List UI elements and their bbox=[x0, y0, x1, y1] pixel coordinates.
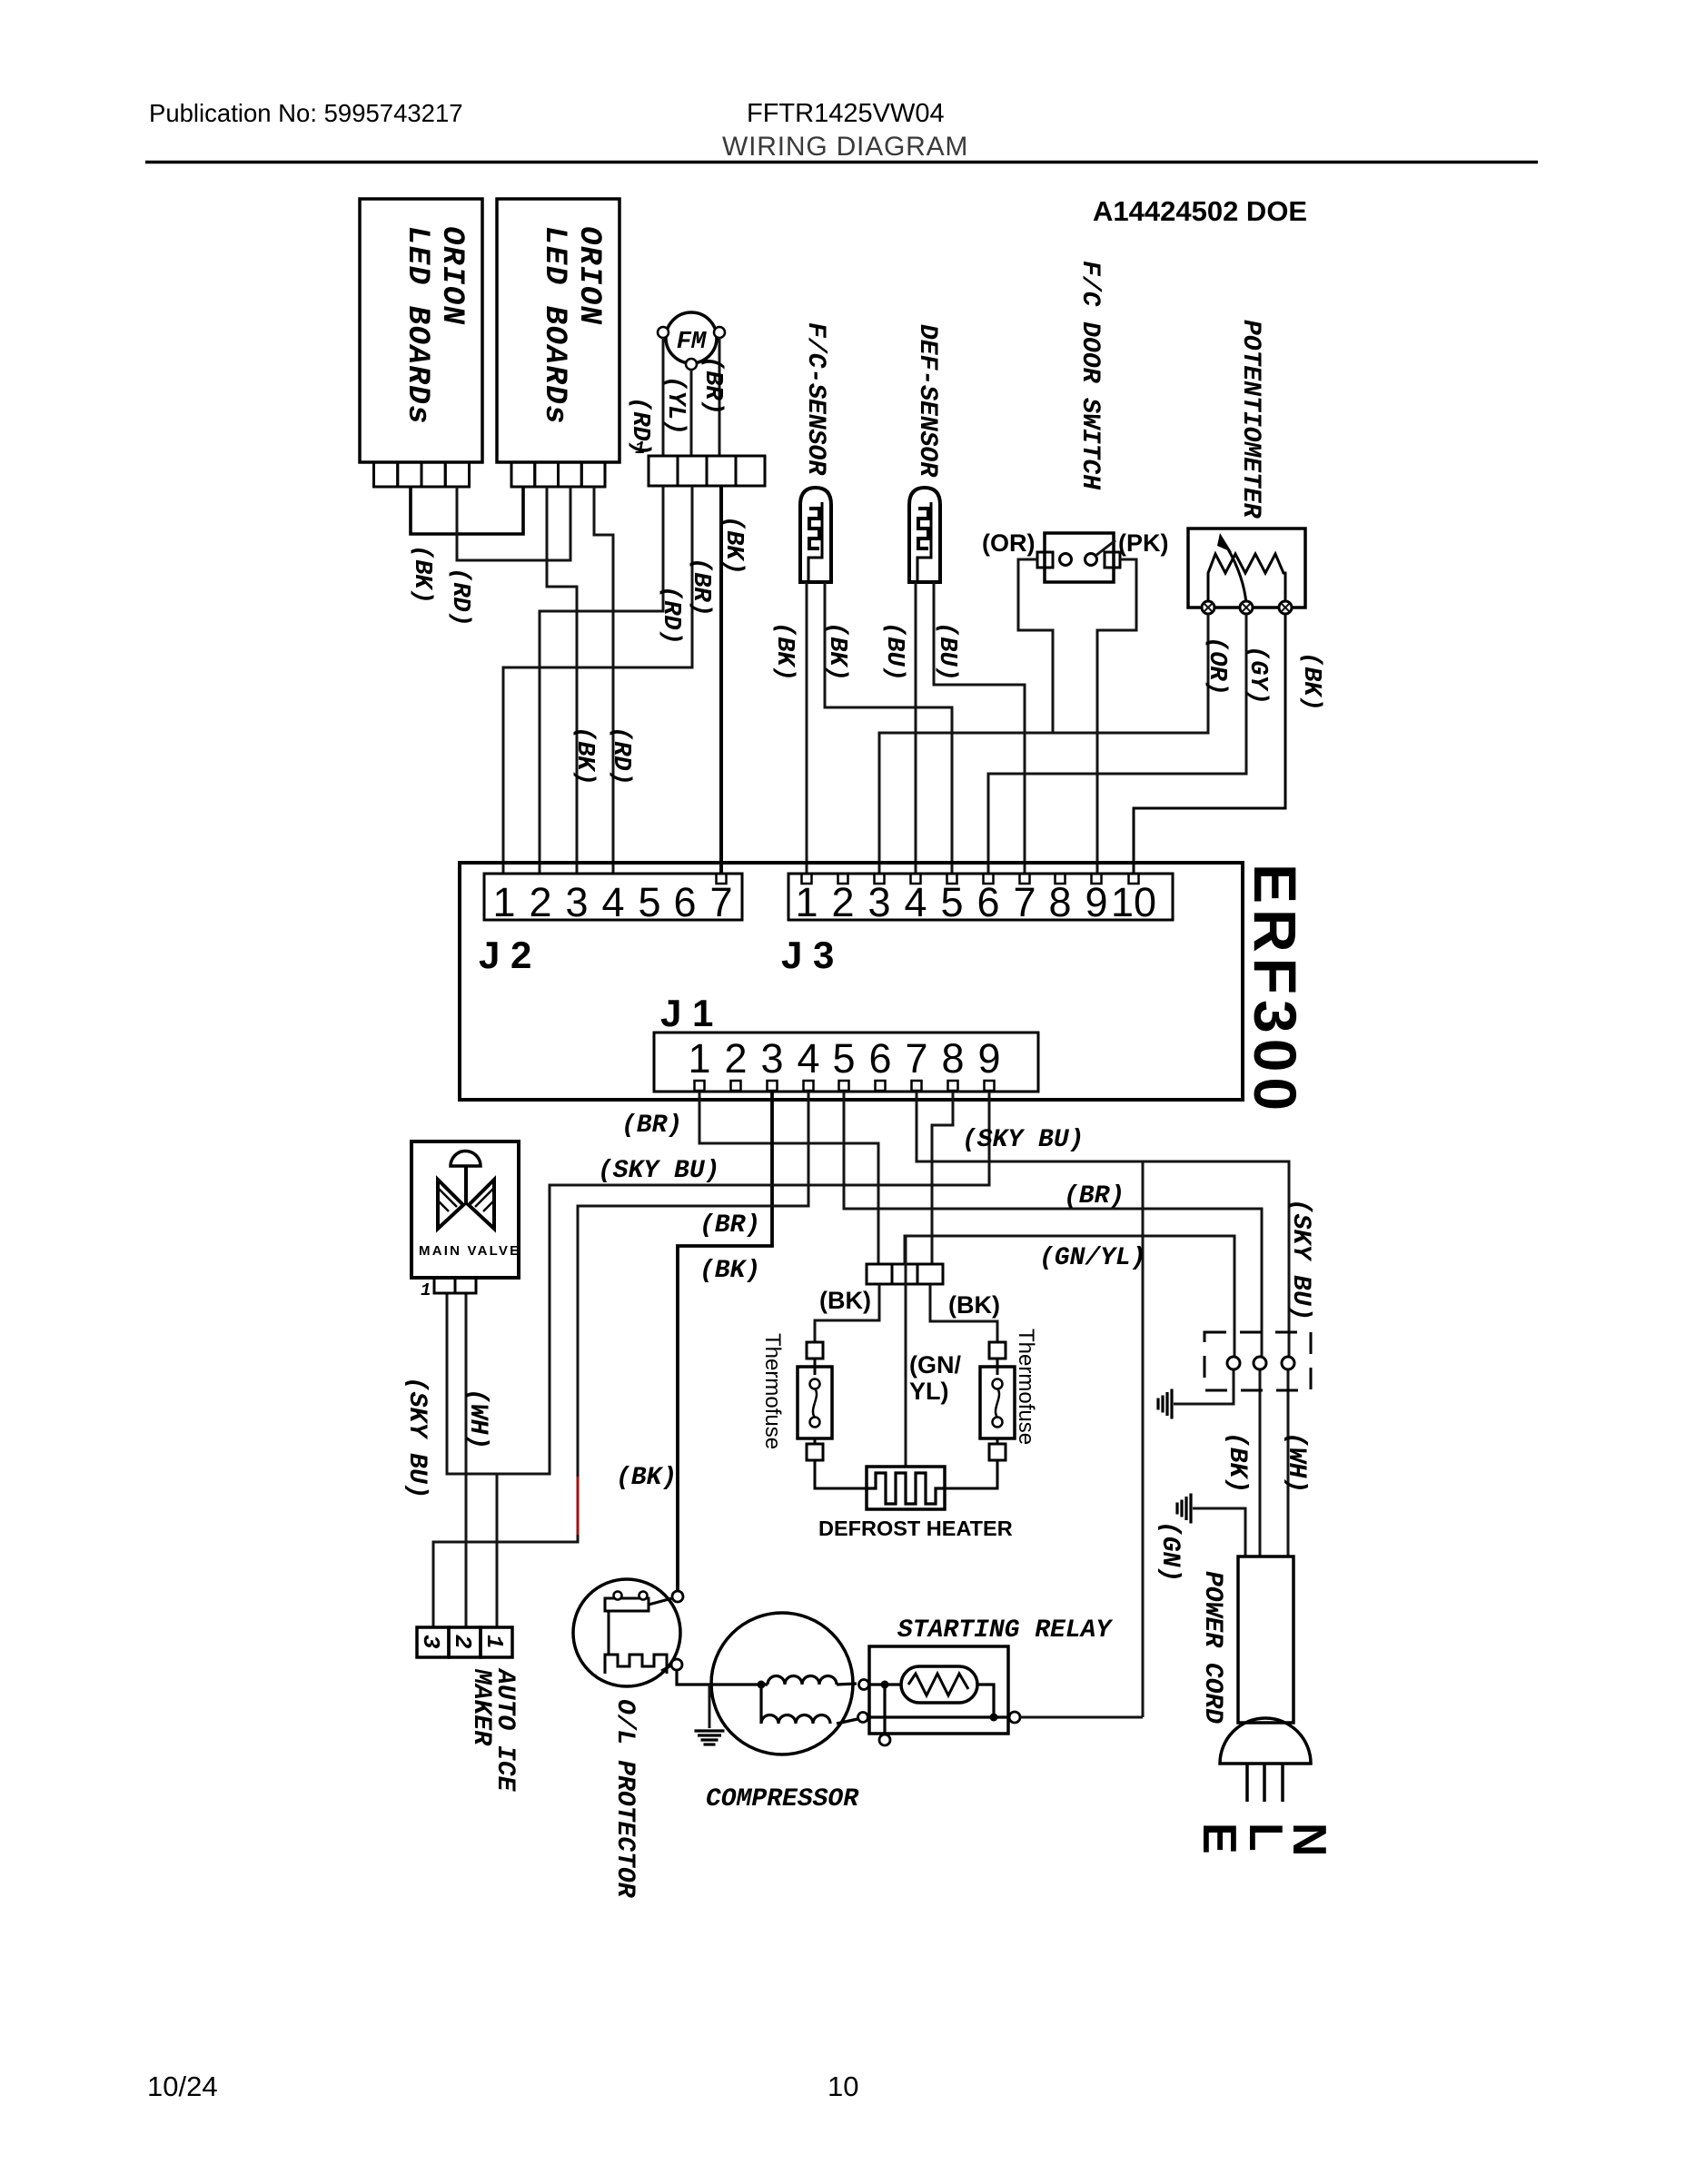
svg-text:L: L bbox=[1239, 1823, 1292, 1852]
svg-text:(OR): (OR) bbox=[1203, 637, 1230, 696]
svg-text:(RD): (RD) bbox=[657, 586, 684, 645]
svg-text:(BR): (BR) bbox=[699, 1211, 760, 1240]
svg-text:10: 10 bbox=[828, 2070, 858, 2102]
svg-text:Publication No: 5995743217: Publication No: 5995743217 bbox=[149, 99, 463, 127]
svg-text:(BU): (BU) bbox=[880, 622, 907, 681]
svg-text:2: 2 bbox=[724, 1035, 747, 1082]
svg-text:(BK): (BK) bbox=[823, 622, 850, 681]
svg-text:10: 10 bbox=[1111, 879, 1156, 925]
svg-text:2: 2 bbox=[529, 879, 551, 925]
svg-text:2: 2 bbox=[449, 1635, 476, 1649]
svg-text:(RD): (RD) bbox=[607, 726, 634, 786]
svg-text:(GN): (GN) bbox=[1155, 1521, 1184, 1582]
svg-text:(PK): (PK) bbox=[1118, 529, 1169, 557]
svg-text:8: 8 bbox=[941, 1035, 964, 1082]
svg-text:Thermofuse: Thermofuse bbox=[760, 1333, 785, 1449]
svg-text:(YL): (YL) bbox=[661, 376, 689, 435]
svg-text:3: 3 bbox=[417, 1635, 444, 1649]
svg-text:(BU): (BU) bbox=[933, 622, 960, 681]
svg-text:LED BOARDs: LED BOARDs bbox=[537, 226, 571, 425]
svg-text:MAKER: MAKER bbox=[467, 1668, 495, 1746]
svg-text:7: 7 bbox=[1013, 879, 1036, 925]
svg-text:(BK): (BK) bbox=[699, 1257, 760, 1285]
svg-text:(SKY BU): (SKY BU) bbox=[962, 1126, 1084, 1154]
svg-text:2: 2 bbox=[831, 879, 854, 925]
svg-text:(BK): (BK) bbox=[719, 516, 747, 575]
svg-text:ORION: ORION bbox=[434, 226, 469, 326]
svg-text:POWER CORD: POWER CORD bbox=[1198, 1571, 1226, 1724]
svg-text:8: 8 bbox=[1048, 879, 1071, 925]
svg-text:E: E bbox=[1193, 1823, 1245, 1854]
svg-text:(BK): (BK) bbox=[1223, 1432, 1251, 1493]
svg-text:1: 1 bbox=[481, 1635, 508, 1649]
svg-text:LED BOARDs: LED BOARDs bbox=[400, 226, 434, 425]
svg-text:3: 3 bbox=[565, 879, 588, 925]
svg-text:FFTR1425VW04: FFTR1425VW04 bbox=[747, 99, 945, 128]
svg-text:7: 7 bbox=[709, 879, 732, 925]
svg-text:7: 7 bbox=[905, 1035, 927, 1082]
svg-text:3: 3 bbox=[867, 879, 890, 925]
svg-text:5: 5 bbox=[832, 1035, 855, 1082]
svg-text:6: 6 bbox=[673, 879, 696, 925]
svg-text:ERF300: ERF300 bbox=[1242, 864, 1309, 1116]
svg-text:1: 1 bbox=[688, 1035, 710, 1082]
svg-text:(BK): (BK) bbox=[948, 1291, 1000, 1319]
svg-text:ORION: ORION bbox=[571, 226, 606, 326]
svg-text:3: 3 bbox=[760, 1035, 783, 1082]
svg-text:A14424502 DOE: A14424502 DOE bbox=[1093, 195, 1307, 227]
svg-text:4: 4 bbox=[797, 1035, 819, 1082]
svg-text:(BK): (BK) bbox=[770, 622, 798, 681]
svg-text:(GN/YL): (GN/YL) bbox=[1039, 1244, 1146, 1272]
svg-text:WIRING DIAGRAM: WIRING DIAGRAM bbox=[722, 132, 968, 162]
svg-text:(WH): (WH) bbox=[463, 1388, 491, 1449]
svg-text:J 1: J 1 bbox=[660, 992, 713, 1034]
svg-text:(SKY BU): (SKY BU) bbox=[402, 1377, 431, 1498]
svg-text:MAIN VALVE: MAIN VALVE bbox=[419, 1243, 520, 1259]
svg-text:(BK): (BK) bbox=[616, 1464, 677, 1492]
svg-text:(GN/: (GN/ bbox=[909, 1351, 961, 1379]
svg-text:O/L PROTECTOR: O/L PROTECTOR bbox=[610, 1699, 639, 1899]
svg-text:5: 5 bbox=[940, 879, 963, 925]
svg-text:(SKY BU): (SKY BU) bbox=[1286, 1199, 1314, 1320]
svg-text:DEFROST HEATER: DEFROST HEATER bbox=[818, 1517, 1013, 1540]
svg-text:(BR): (BR) bbox=[687, 558, 714, 617]
svg-text:(RD): (RD) bbox=[446, 568, 473, 627]
svg-text:1: 1 bbox=[421, 1280, 431, 1300]
svg-text:(BR): (BR) bbox=[699, 356, 726, 415]
svg-text:F/C DOOR SWITCH: F/C DOOR SWITCH bbox=[1075, 261, 1104, 490]
svg-text:J 3: J 3 bbox=[781, 934, 834, 976]
svg-text:(SKY BU): (SKY BU) bbox=[598, 1157, 719, 1185]
svg-text:COMPRESSOR: COMPRESSOR bbox=[706, 1785, 859, 1813]
svg-text:F/C-SENSOR: F/C-SENSOR bbox=[801, 322, 829, 476]
svg-text:J 2: J 2 bbox=[479, 934, 531, 976]
svg-text:9: 9 bbox=[1085, 879, 1107, 925]
svg-text:4: 4 bbox=[601, 879, 624, 925]
svg-text:STARTING RELAY: STARTING RELAY bbox=[897, 1616, 1113, 1645]
svg-text:FM: FM bbox=[677, 329, 707, 356]
svg-text:(BK): (BK) bbox=[1297, 652, 1324, 711]
svg-text:10/24: 10/24 bbox=[147, 2070, 218, 2102]
svg-text:DEF-SENSOR: DEF-SENSOR bbox=[913, 324, 941, 478]
svg-text:1: 1 bbox=[795, 879, 818, 925]
svg-text:9: 9 bbox=[977, 1035, 1000, 1082]
svg-text:(BK): (BK) bbox=[570, 726, 598, 786]
svg-text:(OR): (OR) bbox=[982, 529, 1035, 557]
svg-text:(WH): (WH) bbox=[1282, 1432, 1310, 1493]
svg-text:(BK): (BK) bbox=[408, 545, 435, 604]
svg-text:(BR): (BR) bbox=[621, 1112, 682, 1140]
svg-text:4: 4 bbox=[904, 879, 927, 925]
svg-text:Thermofuse: Thermofuse bbox=[1014, 1329, 1038, 1445]
svg-text:6: 6 bbox=[976, 879, 999, 925]
svg-text:5: 5 bbox=[638, 879, 660, 925]
svg-text:(BR): (BR) bbox=[1064, 1182, 1125, 1211]
svg-text:(GY): (GY) bbox=[1244, 646, 1271, 705]
svg-text:(RD): (RD) bbox=[626, 397, 653, 456]
svg-text:POTENTIOMETER: POTENTIOMETER bbox=[1236, 320, 1264, 519]
svg-text:6: 6 bbox=[868, 1035, 891, 1082]
svg-text:1: 1 bbox=[492, 879, 515, 925]
svg-text:(BK): (BK) bbox=[819, 1287, 871, 1314]
svg-text:YL): YL) bbox=[909, 1378, 949, 1405]
